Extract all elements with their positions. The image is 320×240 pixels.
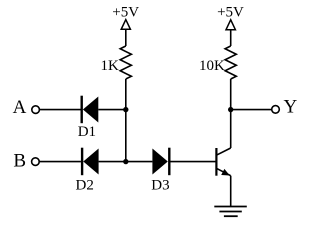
wire B input to D2 cathode xyxy=(39,161,81,163)
label D1 xyxy=(78,124,96,140)
power symbol left (open arrow) xyxy=(121,20,130,30)
wire +5V to R2 xyxy=(230,30,232,46)
wire D3 cathode to Q1 base xyxy=(169,161,216,163)
wire D2 anode to node V1 xyxy=(99,161,126,163)
svg-text:+5V: +5V xyxy=(217,5,244,21)
junction node on A line xyxy=(123,107,128,112)
label D3 xyxy=(151,177,169,193)
resistor R1 1K xyxy=(120,46,131,79)
output terminal Y xyxy=(272,106,280,114)
wire +5V to R1 xyxy=(125,29,127,46)
resistor R2 10K xyxy=(225,46,236,79)
label 1K xyxy=(100,58,119,74)
svg-text:1K: 1K xyxy=(100,58,119,74)
wire Q1 emitter to ground xyxy=(230,176,232,207)
svg-text:D1: D1 xyxy=(78,124,96,140)
svg-text:D2: D2 xyxy=(76,177,94,193)
wire node to Y output xyxy=(231,109,272,111)
label D2 xyxy=(76,177,94,193)
ground xyxy=(214,207,247,217)
wire node V1 to D3 anode xyxy=(126,161,153,163)
junction node at collector/output xyxy=(228,107,233,112)
power +5V label right xyxy=(217,5,244,21)
wire A input to D1 cathode xyxy=(40,109,81,111)
transistor Q1 xyxy=(216,148,230,176)
power symbol right (open arrow) xyxy=(226,20,235,30)
svg-text:Y: Y xyxy=(284,97,298,118)
svg-text:D3: D3 xyxy=(151,177,169,193)
node Y label xyxy=(284,97,298,118)
diode D3 xyxy=(152,148,169,176)
diode D1 xyxy=(82,96,99,124)
diode D2 xyxy=(82,148,99,176)
svg-text:B: B xyxy=(13,150,26,171)
input terminal A xyxy=(32,106,40,114)
power +5V label left xyxy=(112,5,139,21)
wire R1 to diode node rail xyxy=(125,79,127,162)
node B label xyxy=(13,150,26,171)
junction node on B line xyxy=(123,159,128,164)
wire R2 to Q1 collector xyxy=(230,79,232,148)
label 10K xyxy=(199,58,225,74)
node A label xyxy=(13,97,27,118)
svg-text:A: A xyxy=(13,97,27,118)
input terminal B xyxy=(32,158,40,166)
wire D1 anode to node V1 xyxy=(98,109,126,111)
svg-text:10K: 10K xyxy=(199,58,225,74)
